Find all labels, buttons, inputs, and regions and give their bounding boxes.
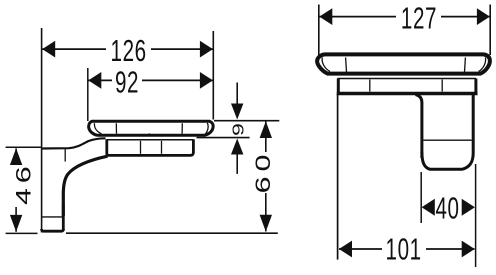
body left edge / 101 left extension (337, 94, 339, 260)
dimension 101 right arrow (462, 241, 475, 258)
dimension 46 ext line top (6, 146, 41, 148)
svg-text:101: 101 (386, 231, 422, 266)
dimension 9 top leader (236, 83, 238, 105)
127 left extension line (318, 5, 320, 56)
bracket top edge (42, 138, 106, 148)
dimension 46 top arrow (10, 148, 22, 165)
dimension 9 bottom leader (236, 154, 238, 174)
dimension 127 line (319, 16, 396, 18)
svg-text:92: 92 (115, 64, 139, 99)
wall/bracket left extension line (41, 28, 43, 233)
dimension 60 line (265, 122, 267, 153)
svg-text:9: 9 (230, 123, 248, 136)
svg-text:40: 40 (435, 190, 459, 225)
dish left extension line (92) (87, 68, 89, 121)
dish right extension line (212, 31, 214, 120)
bracket foot right edge (62, 205, 65, 230)
dish tick right (181, 123, 183, 134)
dish tick left (115, 123, 117, 134)
dimension 46 line (15, 148, 17, 163)
holder bar front divider 2 (441, 80, 443, 92)
bracket foot bottom (42, 229, 64, 231)
dish drain dot (148, 133, 151, 136)
dimension 9 bottom arrow (231, 139, 243, 155)
dish front inner cap right (479, 58, 486, 72)
dish left inner cap curve (94, 123, 101, 134)
dimension 60 bottom ext line (66, 232, 278, 234)
dimension 60 bottom arrow (260, 215, 272, 232)
holder bar front top edge (338, 78, 477, 80)
dimension 92 left arrow (88, 72, 101, 89)
dish front tick right (464, 58, 467, 73)
svg-text:127: 127 (401, 0, 437, 35)
dish front outline (317, 54, 490, 73)
dish side view outline (89, 121, 213, 135)
holder bar front outline (337, 79, 478, 94)
dimension 46 bottom arrow (10, 215, 22, 232)
holder bar divider 2 (161, 141, 163, 154)
wall bar U bottom and right edge (422, 94, 473, 169)
wall bar U left edge (416, 95, 422, 159)
dimension 9 ext line bottom (holder top level) (197, 137, 250, 139)
bracket foot divider (42, 216, 63, 218)
holder bar front divider 1 (369, 80, 371, 92)
bracket front tick (64, 148, 66, 162)
40 left extension line (420, 172, 422, 223)
40/101 right extension line (475, 164, 477, 267)
dimension 126 line (42, 48, 106, 50)
dimension 92 line (88, 79, 112, 81)
svg-text:126: 126 (111, 33, 147, 68)
holder bar divider 1 (140, 141, 142, 154)
svg-text:60: 60 (251, 150, 275, 194)
dimension 127 right arrow (477, 8, 490, 25)
dimension 101 line (339, 248, 382, 250)
dimension 40 right arrow (462, 199, 475, 216)
bracket arm underside sweep (63, 156, 107, 216)
svg-text:46: 46 (11, 161, 35, 205)
dish right inner cap curve (205, 123, 208, 135)
dimension 46 ext line bottom (6, 232, 38, 234)
dimension 92 right arrow (200, 72, 213, 89)
dimension 127 left arrow (319, 8, 332, 25)
wall bar inner line (423, 139, 471, 141)
holder bar top edge (107, 139, 194, 141)
dish front inner cap left (322, 58, 330, 72)
dimension 60 top arrow (260, 121, 272, 138)
dish front tick left (345, 58, 348, 73)
dimension 126 left arrow (42, 41, 55, 58)
dimension 126 right arrow (200, 41, 213, 58)
holder bar outline (left,bottom,right) (107, 139, 194, 155)
dimension 101 left arrow (339, 241, 352, 258)
dimension 9 ext line top (dish top level) (214, 120, 279, 122)
127 right extension line (489, 5, 491, 56)
dimension 9 top arrow (231, 104, 243, 120)
dimension 40 left arrow (422, 199, 435, 216)
